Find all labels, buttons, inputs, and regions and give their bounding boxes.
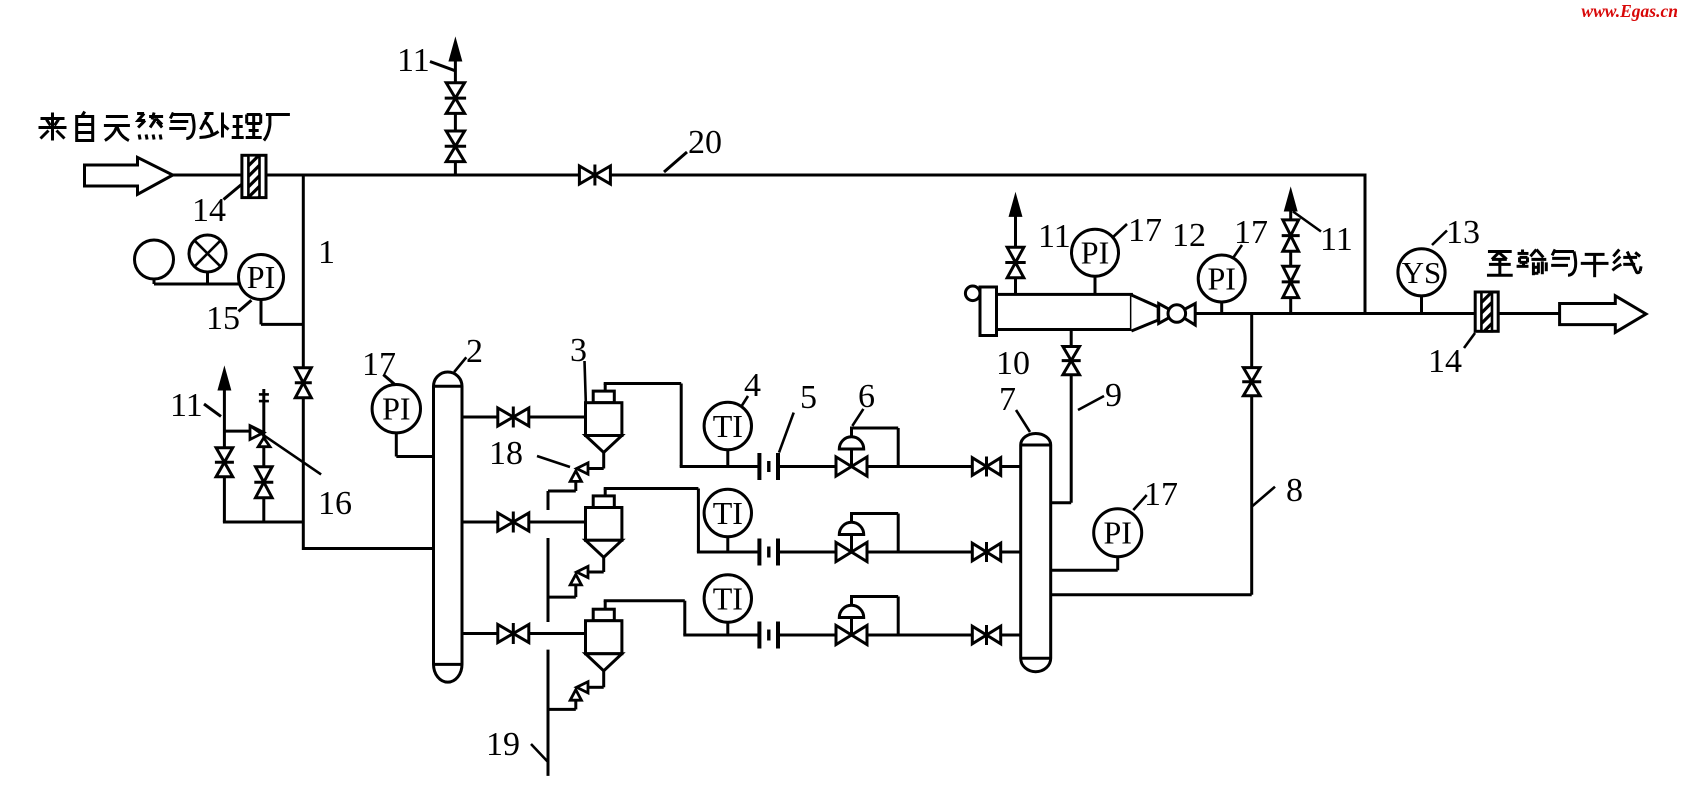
svg-text:18: 18 [489, 435, 523, 472]
pressure gauge with cross [189, 235, 226, 272]
dust angle valve row 2 [577, 566, 588, 577]
label 9 leader [1078, 396, 1104, 410]
wire line 20 drop to outlet header [1364, 174, 1367, 314]
block valve on line 9 [1063, 347, 1080, 361]
block valve row 3 (tower7 side) [972, 626, 986, 644]
label 16 leader (diagonal) [251, 427, 321, 475]
dust header wire (to drain 19) [547, 491, 550, 510]
svg-text:TI: TI [713, 495, 743, 531]
svg-text:20: 20 [688, 124, 722, 161]
orifice plate 5 row 1 [757, 453, 761, 480]
svg-text:12: 12 [1172, 217, 1206, 254]
svg-text:4: 4 [744, 367, 761, 404]
wire control valve to tower7 valve row 2 [867, 551, 972, 554]
svg-text:14: 14 [1428, 343, 1462, 380]
svg-text:17: 17 [1234, 214, 1268, 251]
filter separator vessel 10 [997, 294, 1132, 329]
insulating joint 14 (right) [1475, 292, 1498, 331]
wire to tower 7 row 1 [1001, 465, 1021, 468]
caption: to gas transmission trunk line [1487, 251, 1513, 275]
wire TI process line row 1 (left) [680, 465, 760, 468]
wire relief header bottom [223, 521, 303, 524]
pressure indicator PI 15 [239, 255, 284, 300]
gauge manifold wire [154, 283, 240, 286]
vent valve left stack [216, 448, 233, 463]
pressure indicator PI 17 (tower 7) [1116, 557, 1119, 571]
wire control valve to tower7 valve row 1 [867, 465, 972, 468]
wire cyclone 2 overhead pipe [604, 489, 607, 496]
wire orifice to control valve row 2 [778, 551, 836, 554]
label 4 leader [741, 396, 748, 407]
label 5 leader [779, 413, 794, 453]
svg-text:11: 11 [1320, 221, 1353, 258]
svg-text:1: 1 [318, 234, 335, 271]
svg-text:TI: TI [713, 580, 743, 616]
cyclone separator 3 [593, 609, 614, 621]
svg-text:16: 16 [318, 485, 352, 522]
svg-text:TI: TI [713, 408, 743, 444]
svg-text:PI: PI [1207, 260, 1235, 296]
block valve row 1 (tower7 side) [972, 458, 986, 476]
ball valve 12 after vessel 10 [1159, 304, 1177, 324]
relief angle valve 16 [250, 426, 264, 440]
wire TI process line row 2 (left) [697, 551, 760, 554]
orifice plate 5 row 3 [757, 622, 761, 649]
svg-text:3: 3 [570, 332, 587, 369]
svg-text:10: 10 [996, 345, 1030, 382]
wire relief outlet down [262, 447, 265, 522]
svg-text:PI: PI [1103, 515, 1131, 551]
insulating joint 14 (left) [242, 155, 266, 197]
wire control valve sensing loop row 3 [850, 595, 898, 598]
wire line 1 vertical [302, 175, 305, 550]
dust angle valve row 3 [577, 682, 588, 693]
wire tower2 outlet row 3 [462, 632, 498, 635]
wire tower2 outlet row 1 [462, 416, 498, 419]
label 17 leader (outlet) [1233, 245, 1242, 258]
svg-text:8: 8 [1286, 472, 1303, 509]
svg-text:9: 9 [1105, 377, 1122, 414]
svg-text:13: 13 [1446, 214, 1480, 251]
svg-text:11: 11 [170, 387, 203, 424]
dust angle valve row 1 [577, 463, 588, 474]
wire line 20 top header [266, 174, 1365, 177]
wire PI15 to line 1 [260, 300, 263, 325]
block valve below relief [256, 467, 273, 483]
vent valve 11a upper [446, 83, 464, 98]
svg-text:17: 17 [1144, 476, 1178, 513]
wire line 1 bottom to tower 2 [303, 547, 433, 550]
svg-text:www.Egas.cn: www.Egas.cn [1581, 1, 1678, 21]
wire control valve sensing loop row 1 [850, 427, 898, 430]
label 14 leader [224, 184, 243, 200]
label 17 leader (tower 7) [1133, 495, 1146, 510]
drain line 9 wire [1070, 330, 1073, 347]
block valve row 2 (tower2 side) [498, 513, 514, 531]
label 13 leader [1432, 231, 1447, 246]
scrubber tower 2 [434, 372, 463, 682]
svg-text:PI: PI [1081, 235, 1109, 271]
svg-text:YS: YS [1402, 255, 1442, 290]
block valve on line 1 [295, 368, 311, 383]
label 14 leader (right) [1464, 333, 1475, 348]
vent stack 11b on vessel 10 [1014, 278, 1017, 295]
temperature indicator TI row 1 [726, 450, 729, 467]
wire orifice to control valve row 3 [778, 634, 836, 637]
label 20 leader [664, 152, 687, 172]
orifice plate 5 row 2 [757, 539, 761, 566]
wire TI process line row 3 (left) [683, 634, 759, 637]
label 2 leader [454, 357, 466, 372]
caption: from natural-gas processing plant [39, 113, 67, 141]
bypass line 8 wire [1250, 314, 1253, 368]
temperature indicator TI row 2 [726, 537, 729, 552]
svg-text:19: 19 [486, 726, 520, 763]
wire to tower 7 row 2 [1001, 551, 1021, 554]
pressure indicator PI 17 (outlet) [1220, 302, 1223, 314]
label 8 leader [1252, 487, 1275, 507]
vent arrow 11a [450, 42, 460, 60]
vessel 10 nozzle circle [965, 286, 980, 301]
svg-text:14: 14 [192, 192, 226, 229]
vent valve 11c upper [1283, 220, 1299, 236]
filter tower 7 [1021, 434, 1051, 672]
wire main inlet line [173, 174, 242, 177]
wire angle valve 1 outlet [574, 481, 577, 491]
block valve row 3 (tower2 side) [498, 625, 514, 643]
svg-text:15: 15 [206, 300, 240, 337]
pressure indicator PI 17 (vessel 10) [1094, 276, 1097, 294]
wire to tower 7 row 3 [1001, 634, 1021, 637]
wire angle valve 2 outlet [574, 585, 577, 597]
svg-text:7: 7 [999, 381, 1016, 418]
self-acting control valve 6 row 1 [836, 457, 852, 476]
self-acting control valve 6 row 3 [836, 625, 852, 644]
cyclone separator 1 [593, 391, 614, 403]
wire valve to cyclone 2 [529, 521, 586, 524]
block valve on line 8 [1243, 368, 1260, 382]
outlet flow arrow (to trunk line) [1560, 296, 1646, 333]
label 11c leader [1293, 212, 1321, 232]
pressure gauge (plain) [135, 240, 174, 279]
wire cyclone 3 overhead pipe [604, 601, 607, 610]
self-acting control valve 6 row 2 [836, 542, 852, 561]
block valve row 2 (tower7 side) [972, 543, 986, 561]
wire cyclone 3 dust leg [602, 671, 605, 688]
wire outlet main line [1195, 312, 1559, 315]
label 15 leader [239, 300, 252, 311]
cyclone separator 2 [593, 496, 614, 508]
label 17 leader (vessel 10) [1112, 224, 1127, 238]
svg-text:11: 11 [397, 42, 430, 79]
wire PI17 to tower 2 [395, 433, 398, 457]
svg-text:2: 2 [466, 333, 483, 370]
svg-text:PI: PI [247, 259, 275, 295]
wire control valve sensing loop row 2 [850, 512, 898, 515]
wire cyclone 1 dust leg [602, 453, 605, 469]
block valve row 1 (tower2 side) [498, 408, 514, 426]
vessel 10 outlet cone [1131, 295, 1158, 331]
wire tee to relief valve [224, 430, 250, 433]
pressure switch YS 13 [1420, 296, 1423, 314]
wire control valve to tower7 valve row 3 [867, 634, 972, 637]
vent valve 11c lower [1283, 266, 1299, 282]
wire cyclone 1 overhead pipe [604, 384, 607, 392]
block valve on line 20 [579, 166, 595, 184]
wire orifice to control valve row 1 [778, 465, 836, 468]
vent stack 11c wire [1289, 298, 1292, 314]
vent arrow left [219, 371, 229, 389]
wire cyclone 2 dust leg [602, 557, 605, 572]
vent arrow 11c [1286, 192, 1296, 210]
svg-text:PI: PI [382, 391, 410, 427]
vent valve 11a lower [446, 131, 464, 146]
wire angle valve 3 outlet [574, 700, 577, 709]
svg-text:17: 17 [1128, 212, 1162, 249]
svg-text:6: 6 [858, 378, 875, 415]
wire valve to cyclone 3 [529, 632, 586, 635]
vent stack 11 (top) wire [454, 162, 457, 176]
label 11 leader (left) [204, 404, 221, 416]
label 7 leader [1016, 410, 1030, 432]
wire valve to cyclone 1 [529, 416, 586, 419]
label 18 leader [537, 456, 570, 467]
label 3 leader [585, 361, 586, 402]
svg-text:17: 17 [362, 346, 396, 383]
svg-text:5: 5 [800, 379, 817, 416]
label 6 leader [852, 409, 863, 426]
wire tower2 outlet row 2 [462, 521, 498, 524]
svg-text:11: 11 [1038, 218, 1071, 255]
inlet flow arrow (from gas plant) [85, 157, 173, 194]
atmosphere symbol above relief valve [262, 389, 265, 438]
temperature indicator TI row 3 [726, 622, 729, 635]
pressure indicator PI 17 (tower 2) [372, 385, 420, 433]
label 19 leader [531, 744, 548, 762]
vent line (left) wire [223, 390, 226, 522]
label 17 leader (tower 2) [383, 375, 395, 385]
label 11 leader [430, 62, 455, 71]
